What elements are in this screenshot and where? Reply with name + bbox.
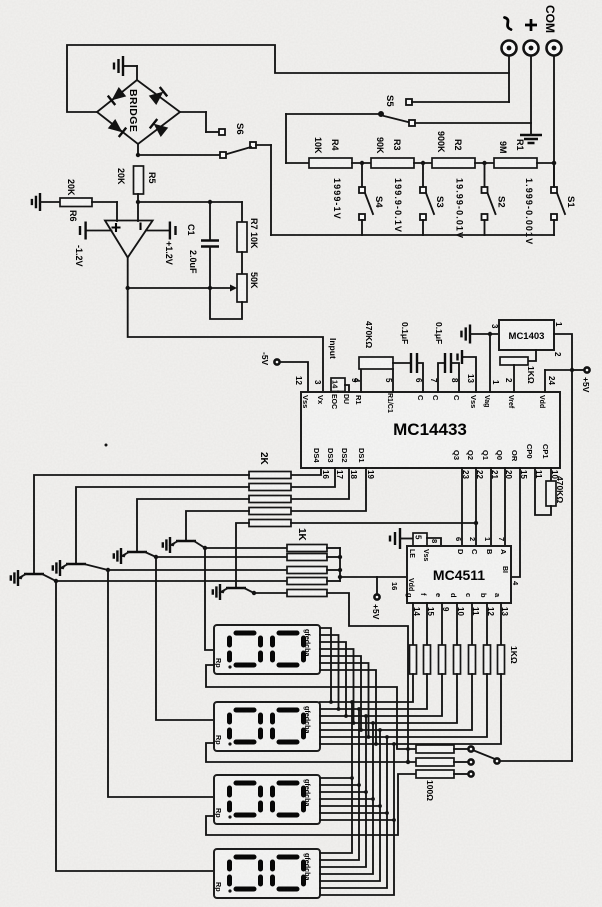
wire display1 Rp to 100ohm 1	[206, 665, 416, 749]
wire pin 7 to cap	[438, 363, 445, 392]
wire	[352, 162, 371, 164]
wire ~ terminal down	[508, 56, 510, 102]
wire segment d to 1K	[456, 603, 458, 645]
resistor 2K #2	[249, 484, 291, 491]
junction C1 top	[208, 200, 212, 204]
wire Q4 collector to display 1	[205, 548, 214, 650]
wire DS1 pin 19 to 2K bank	[291, 468, 366, 511]
resistor 1K #5	[287, 590, 327, 597]
transistor Q2 digit driver	[66, 563, 86, 565]
wire 2K #5 to Q2 line	[291, 522, 476, 524]
wire R5 bottom	[137, 194, 139, 202]
wire Q0 pin 20 to MC4511 A	[504, 468, 506, 546]
wire node to C1 and R7	[138, 201, 242, 203]
capacitor 0.1uF second	[445, 353, 451, 373]
S6 arm	[227, 147, 251, 154]
diode D1 of bridge (upper-left)	[108, 87, 126, 105]
wire display 1 segment a	[320, 670, 376, 744]
wire bus g down to display 4	[320, 702, 352, 853]
wire base drive 1	[34, 475, 249, 574]
wire base drive 2	[76, 487, 249, 564]
pin 5 LE boxed	[413, 533, 427, 546]
capacitor 0.1uF first	[393, 362, 411, 364]
wire Q1 pin 21 to MC4511 B	[490, 468, 492, 546]
pin 14 boxed	[331, 378, 345, 392]
wire tap display 3 segment f	[320, 784, 359, 786]
wire DS4 pin 16 to 2K bank	[291, 468, 321, 475]
wire op-amp to left battery	[86, 230, 112, 232]
IC MC14433	[301, 392, 560, 468]
resistor 100ohm #1	[416, 745, 454, 753]
wire segment c to 1K	[471, 603, 473, 645]
wire 1K #5 to dp resistor net	[327, 593, 408, 762]
wire collector Q4 to 1K bank	[205, 547, 287, 549]
wire pin 13 to ground tick	[463, 357, 476, 392]
terminal -5V	[274, 359, 279, 364]
S5 pole	[378, 111, 384, 117]
resistor 1K segment a	[498, 645, 505, 674]
wire C1 top	[209, 202, 211, 240]
resistor 1K #3	[287, 567, 327, 574]
terminal +	[524, 41, 539, 56]
resistor 100ohm #3	[416, 770, 454, 778]
resistor 1K #4	[287, 578, 327, 585]
wire 50K bottom loop	[210, 288, 242, 319]
decimal point	[228, 889, 231, 892]
junction +5V rail	[570, 368, 574, 372]
resistor 1K segment b	[484, 645, 491, 674]
wire S5 pole left	[286, 113, 378, 115]
wire COM terminal down	[553, 56, 555, 163]
S5 contact upper	[406, 99, 412, 105]
resistor 1K segment d	[454, 645, 461, 674]
wire collector Q1 to 1K bank	[56, 580, 287, 582]
IC MC4511	[407, 546, 511, 603]
wire collector Q3 to 1K bank	[156, 556, 287, 558]
switch arm	[475, 751, 495, 759]
IC MC1403 voltage reference	[499, 320, 554, 350]
wire Q1 collector to display 4	[56, 581, 214, 871]
wire pin 1 up to MC1403 pin 3 node	[489, 334, 491, 392]
label + input	[112, 223, 121, 232]
wire -5V to pin 12	[280, 362, 308, 392]
wire collector Q2 to 1K bank	[108, 569, 287, 571]
wire op-amp output to MC14433 Vx pin 3	[128, 288, 323, 392]
wire Q2 collector to display 3	[108, 570, 214, 797]
resistor 470K oscillator	[550, 468, 552, 481]
wire base drive 4	[186, 511, 249, 541]
resistor R7 10K	[237, 222, 247, 252]
wire 1K to MC14433 pin 2	[513, 365, 515, 392]
wire op-amp output	[127, 258, 129, 289]
ground at + terminal	[520, 135, 542, 143]
resistor 1K ohm	[500, 357, 528, 365]
wire op-amp to right battery	[146, 230, 170, 232]
contact 100ohm #1	[468, 746, 473, 751]
capacitor C1 2.0uF	[201, 241, 219, 247]
junction pin1/pin3 node	[488, 332, 492, 336]
wire to R7	[241, 202, 243, 222]
resistor 1K segment c	[469, 645, 476, 674]
wire C1 bottom	[209, 247, 211, 289]
resistor 100ohm #2	[416, 758, 454, 766]
wire top loop bridge to ~ terminal	[67, 45, 509, 112]
resistor R4 10K	[309, 158, 352, 168]
wire segment g to 1K	[412, 603, 414, 645]
transistor Q1 digit driver	[24, 573, 44, 575]
wiper of 50K pot	[210, 287, 232, 289]
wire display 1 segment e	[320, 642, 346, 716]
wire R6 to op-amp +	[92, 201, 117, 203]
wire switch to +5V rail	[500, 760, 572, 762]
wire	[286, 162, 309, 164]
resistor 1K #2	[287, 554, 327, 561]
label ~ input terminal	[505, 18, 512, 30]
wire tap display 3 segment a	[320, 819, 394, 821]
resistor 1K segment g	[410, 645, 417, 674]
wire bridge top to ground	[136, 66, 138, 80]
7-segment display DS1	[214, 625, 320, 674]
diode D2 of bridge (upper-right)	[149, 87, 167, 105]
wire tap display 3 segment d	[320, 798, 373, 800]
resistor 1K #1	[287, 545, 327, 552]
op-amp U1	[105, 221, 153, 258]
decimal point	[228, 815, 231, 818]
wire bus d down to display 4	[320, 723, 373, 874]
switch S4	[360, 161, 364, 165]
resistor R3 90K	[371, 158, 414, 168]
wire bus riser	[270, 145, 272, 235]
label - input	[139, 223, 141, 231]
wire display 1 segment d	[320, 649, 354, 723]
wire segment b to 1K	[486, 603, 488, 645]
switch S2	[482, 161, 486, 165]
decimal point	[228, 742, 231, 745]
wire segment e to 1K	[441, 603, 443, 645]
junction COM line / divider	[552, 161, 556, 165]
ground at R6	[32, 193, 40, 211]
wire R7 to 50K	[241, 252, 243, 274]
wire 1K common rail	[339, 548, 341, 581]
diode D4 of bridge (lower-right)	[150, 119, 168, 137]
contact 100ohm #2	[468, 759, 473, 764]
wire +5V rail vertical	[571, 370, 573, 761]
resistor R2 900K	[432, 158, 475, 168]
switch S1	[552, 161, 556, 165]
wire DS2 pin 18 to 2K bank	[291, 468, 349, 499]
S3 arm	[426, 193, 434, 214]
wire	[475, 162, 494, 164]
wire MC1403 pin 1 to +5V rail	[554, 334, 572, 370]
wire COM to S1	[553, 163, 555, 187]
wire rail to MC4511 Vdd pin 16	[340, 576, 407, 578]
wire node to S6 contact	[138, 154, 220, 156]
wire ground to LE	[400, 538, 413, 540]
wire cap to pin 8	[451, 363, 459, 392]
wire cap to pin 6	[417, 363, 423, 392]
resistor 2K #1	[249, 472, 291, 479]
wire pin 8 to ground line	[427, 538, 441, 546]
wire base drive 3	[137, 499, 249, 552]
resistor R1 9M	[494, 158, 537, 168]
wire +5V tap	[376, 577, 378, 594]
wire OR pin 15 to MC4511 BI	[511, 468, 520, 577]
wire segment c fan to display 2	[320, 674, 472, 730]
7-segment display DS2	[214, 702, 320, 751]
wire display 1 segment g	[320, 628, 331, 702]
wire bus c down to display 4	[320, 730, 380, 881]
wire MC1403 pin 2 to 1K	[528, 350, 536, 361]
wire collector Q5 to 1K bank	[254, 592, 287, 594]
wire bus b down to display 4	[320, 737, 387, 888]
transistor Q3 digit driver	[127, 551, 147, 553]
stray mark	[105, 444, 108, 447]
node inverting input	[136, 200, 140, 204]
terminal ~	[502, 41, 517, 56]
wire display3 Rp to 100ohm 3	[206, 774, 416, 835]
S5 arm	[384, 116, 408, 122]
7-segment display DS4	[214, 849, 320, 898]
S1 arm	[557, 193, 565, 214]
wire to op-amp inverting input	[137, 202, 139, 221]
switch S3	[421, 161, 425, 165]
wire + terminal down	[530, 56, 532, 123]
ground at bridge top	[114, 56, 123, 76]
wire bus e down to display 4	[320, 716, 366, 867]
wire segment b fan to display 2	[320, 674, 487, 737]
wire bus a down to display 4	[320, 744, 394, 895]
wire segment a fan to display 2	[320, 674, 501, 744]
S6 pole	[250, 142, 256, 148]
S6 contact lower	[220, 152, 226, 158]
wire S5 lower contact to ground line	[415, 122, 531, 124]
S4 arm	[365, 193, 373, 214]
wire display 1 segment b	[320, 663, 369, 737]
junction C1 bottom	[208, 286, 212, 290]
contact 100ohm #3	[468, 771, 473, 776]
wire S6 pole to bus riser	[256, 144, 271, 146]
wire display 1 segment c	[320, 656, 361, 730]
wire to COM line	[537, 162, 554, 164]
wire ground to MC1403 pin 3	[470, 333, 499, 335]
diode D3 of bridge (lower-left)	[108, 119, 126, 137]
wire segment g fan to display 2	[320, 674, 413, 702]
terminal +5V	[584, 367, 589, 372]
S6 contact upper	[219, 129, 225, 135]
S5 contact lower	[409, 120, 415, 126]
transistor Q5 dp driver	[226, 587, 246, 589]
wire segment a to 1K	[500, 603, 502, 645]
wire down to divider row	[285, 114, 287, 163]
resistor 2K #5	[249, 520, 291, 527]
node op-amp output	[126, 286, 130, 290]
wire segment f fan to display 2	[320, 674, 427, 709]
wire to +5V terminal	[572, 369, 584, 371]
wire tap display 3 segment e	[320, 791, 366, 793]
resistor R6 20K	[60, 198, 92, 207]
ground at LE pin	[390, 528, 400, 549]
terminal COM	[547, 41, 562, 56]
wire Q3 pin 23 to MC4511 D	[461, 468, 463, 546]
label + input terminal	[525, 19, 537, 31]
wire pin14 box to pin 9	[345, 385, 349, 392]
resistor 1K segment e	[439, 645, 446, 674]
wire segment d fan to display 2	[320, 674, 457, 723]
terminal +5V for MC4511	[374, 594, 379, 599]
potentiometer 50K	[237, 274, 247, 302]
wire bridge right corner to S6	[180, 111, 206, 113]
wire to ground	[530, 123, 532, 135]
wire segment e fan to display 2	[320, 674, 442, 716]
switch pole contact	[494, 758, 499, 763]
node bridge output	[136, 153, 140, 157]
wire display2 Rp to 100ohm 2	[206, 743, 416, 762]
wire Q3 collector to display 2	[156, 557, 214, 720]
resistor 470K integrator	[359, 357, 393, 369]
wire output to feedback	[128, 287, 210, 289]
resistor 2K #4	[249, 508, 291, 515]
7-segment display DS3	[214, 775, 320, 824]
wire tap display 3 segment g	[320, 777, 352, 779]
wire range bus	[271, 234, 554, 236]
ground at MC1403 pin 3	[461, 325, 470, 344]
bridge rectifier BRIDGE	[97, 80, 180, 144]
resistor R5 20K	[134, 166, 144, 194]
wire 470K to CP0	[535, 468, 551, 515]
wire tap display 3 segment c	[320, 805, 380, 807]
wire Q2 pin 22 to MC4511 C	[475, 468, 477, 546]
wire pin 24 to +5V rail	[544, 370, 546, 392]
wire DS3 pin 17 to 2K bank	[291, 468, 335, 487]
wire tap display 3 segment b	[320, 812, 387, 814]
decimal point	[228, 665, 231, 668]
resistor 1K segment f	[424, 645, 431, 674]
wire bus f down to display 4	[320, 709, 359, 860]
wire display 1 segment f	[320, 635, 339, 709]
wire ground to R6	[40, 201, 60, 203]
wire	[414, 162, 432, 164]
wire +5V to pin 24	[545, 369, 572, 371]
wire bridge bottom to node	[137, 144, 139, 155]
wire S5 upper contact to ~ line	[412, 101, 509, 103]
S2 arm	[488, 193, 496, 214]
wire segment f to 1K	[426, 603, 428, 645]
resistor 2K #3	[249, 496, 291, 503]
wire base drive 5	[236, 523, 249, 588]
transistor Q4 digit driver	[176, 540, 196, 542]
